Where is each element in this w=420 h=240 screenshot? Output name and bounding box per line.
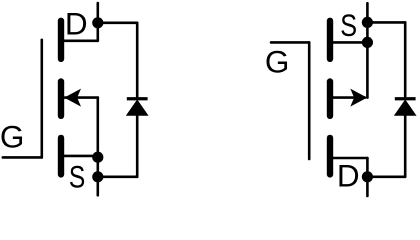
wire: drain node to diode D2 anode branch <box>367 176 405 179</box>
diode D1 (Q1 body diode, cathode up) <box>127 23 148 177</box>
junction dot: source-stub node of Q2 <box>362 37 373 48</box>
wire: source node to diode D2 cathode branch <box>367 21 405 24</box>
D1 anode lead wire <box>136 113 139 177</box>
transistor Q2 (P-channel MOSFET, S top / D bottom / G left) <box>271 21 367 175</box>
Q1 gate lead wire <box>3 156 42 159</box>
Q1 channel drain segment <box>58 21 64 59</box>
wire: Q2 source terminal <box>366 3 369 42</box>
Q2 drain stub <box>330 157 367 160</box>
wire: Q2 drain terminal <box>366 158 369 196</box>
Q1 source stub <box>61 155 98 158</box>
Q2 channel drain segment <box>327 138 333 175</box>
wire: drain node to diode D1 cathode branch <box>98 21 137 24</box>
diode D2 (Q2 body diode, cathode up) <box>395 22 416 176</box>
Q1 body-to-source wire <box>97 98 100 157</box>
svg-text:D: D <box>337 158 360 194</box>
D2 anode lead wire <box>404 113 407 177</box>
Q1 channel source segment <box>58 138 64 175</box>
wire: Q1 drain terminal <box>97 3 100 41</box>
D1 cathode lead wire <box>136 23 139 97</box>
D1 anode triangle <box>127 100 148 115</box>
junction dot: drain node of Q1 <box>92 17 103 28</box>
Q1 channel body segment <box>58 82 64 116</box>
junction dot: source-diode tap node <box>92 171 103 182</box>
svg-text:S: S <box>69 159 85 195</box>
svg-text:G: G <box>0 118 24 154</box>
Q2 body arrowhead (points right, P-channel) <box>350 89 367 107</box>
junction dot: drain-diode tap node <box>362 171 373 182</box>
wire: Q1 source terminal <box>97 157 100 195</box>
Q2 gate lead wire <box>271 41 309 44</box>
Q2 source-to-body wire <box>366 42 369 97</box>
D2 cathode bar <box>395 97 416 100</box>
Q1 body arrowhead (points left, N-channel) <box>64 89 81 107</box>
junction dot: source node of Q1 <box>92 152 103 163</box>
D2 cathode lead wire <box>404 22 407 97</box>
Q1 body stub with arrow toward channel <box>65 96 98 99</box>
Q2 source stub <box>330 41 367 44</box>
Q2 body stub with arrow away from channel <box>330 96 365 99</box>
svg-text:D: D <box>65 6 88 42</box>
Q2 gate electrode line <box>308 42 311 159</box>
transistor Q1 (N-channel MOSFET, D top / S bottom / G left) <box>3 21 98 175</box>
wire: source node to diode D1 anode branch <box>98 176 137 179</box>
Q1 gate electrode line <box>40 40 43 158</box>
Q1 drain stub <box>61 39 98 42</box>
junction dot: source node of Q2 <box>362 17 373 28</box>
D1 cathode bar <box>127 97 148 100</box>
svg-text:S: S <box>340 8 357 43</box>
Q2 channel source segment <box>327 21 333 59</box>
svg-text:G: G <box>265 43 290 79</box>
D2 anode triangle <box>395 100 416 115</box>
Q2 channel body segment <box>327 82 333 116</box>
